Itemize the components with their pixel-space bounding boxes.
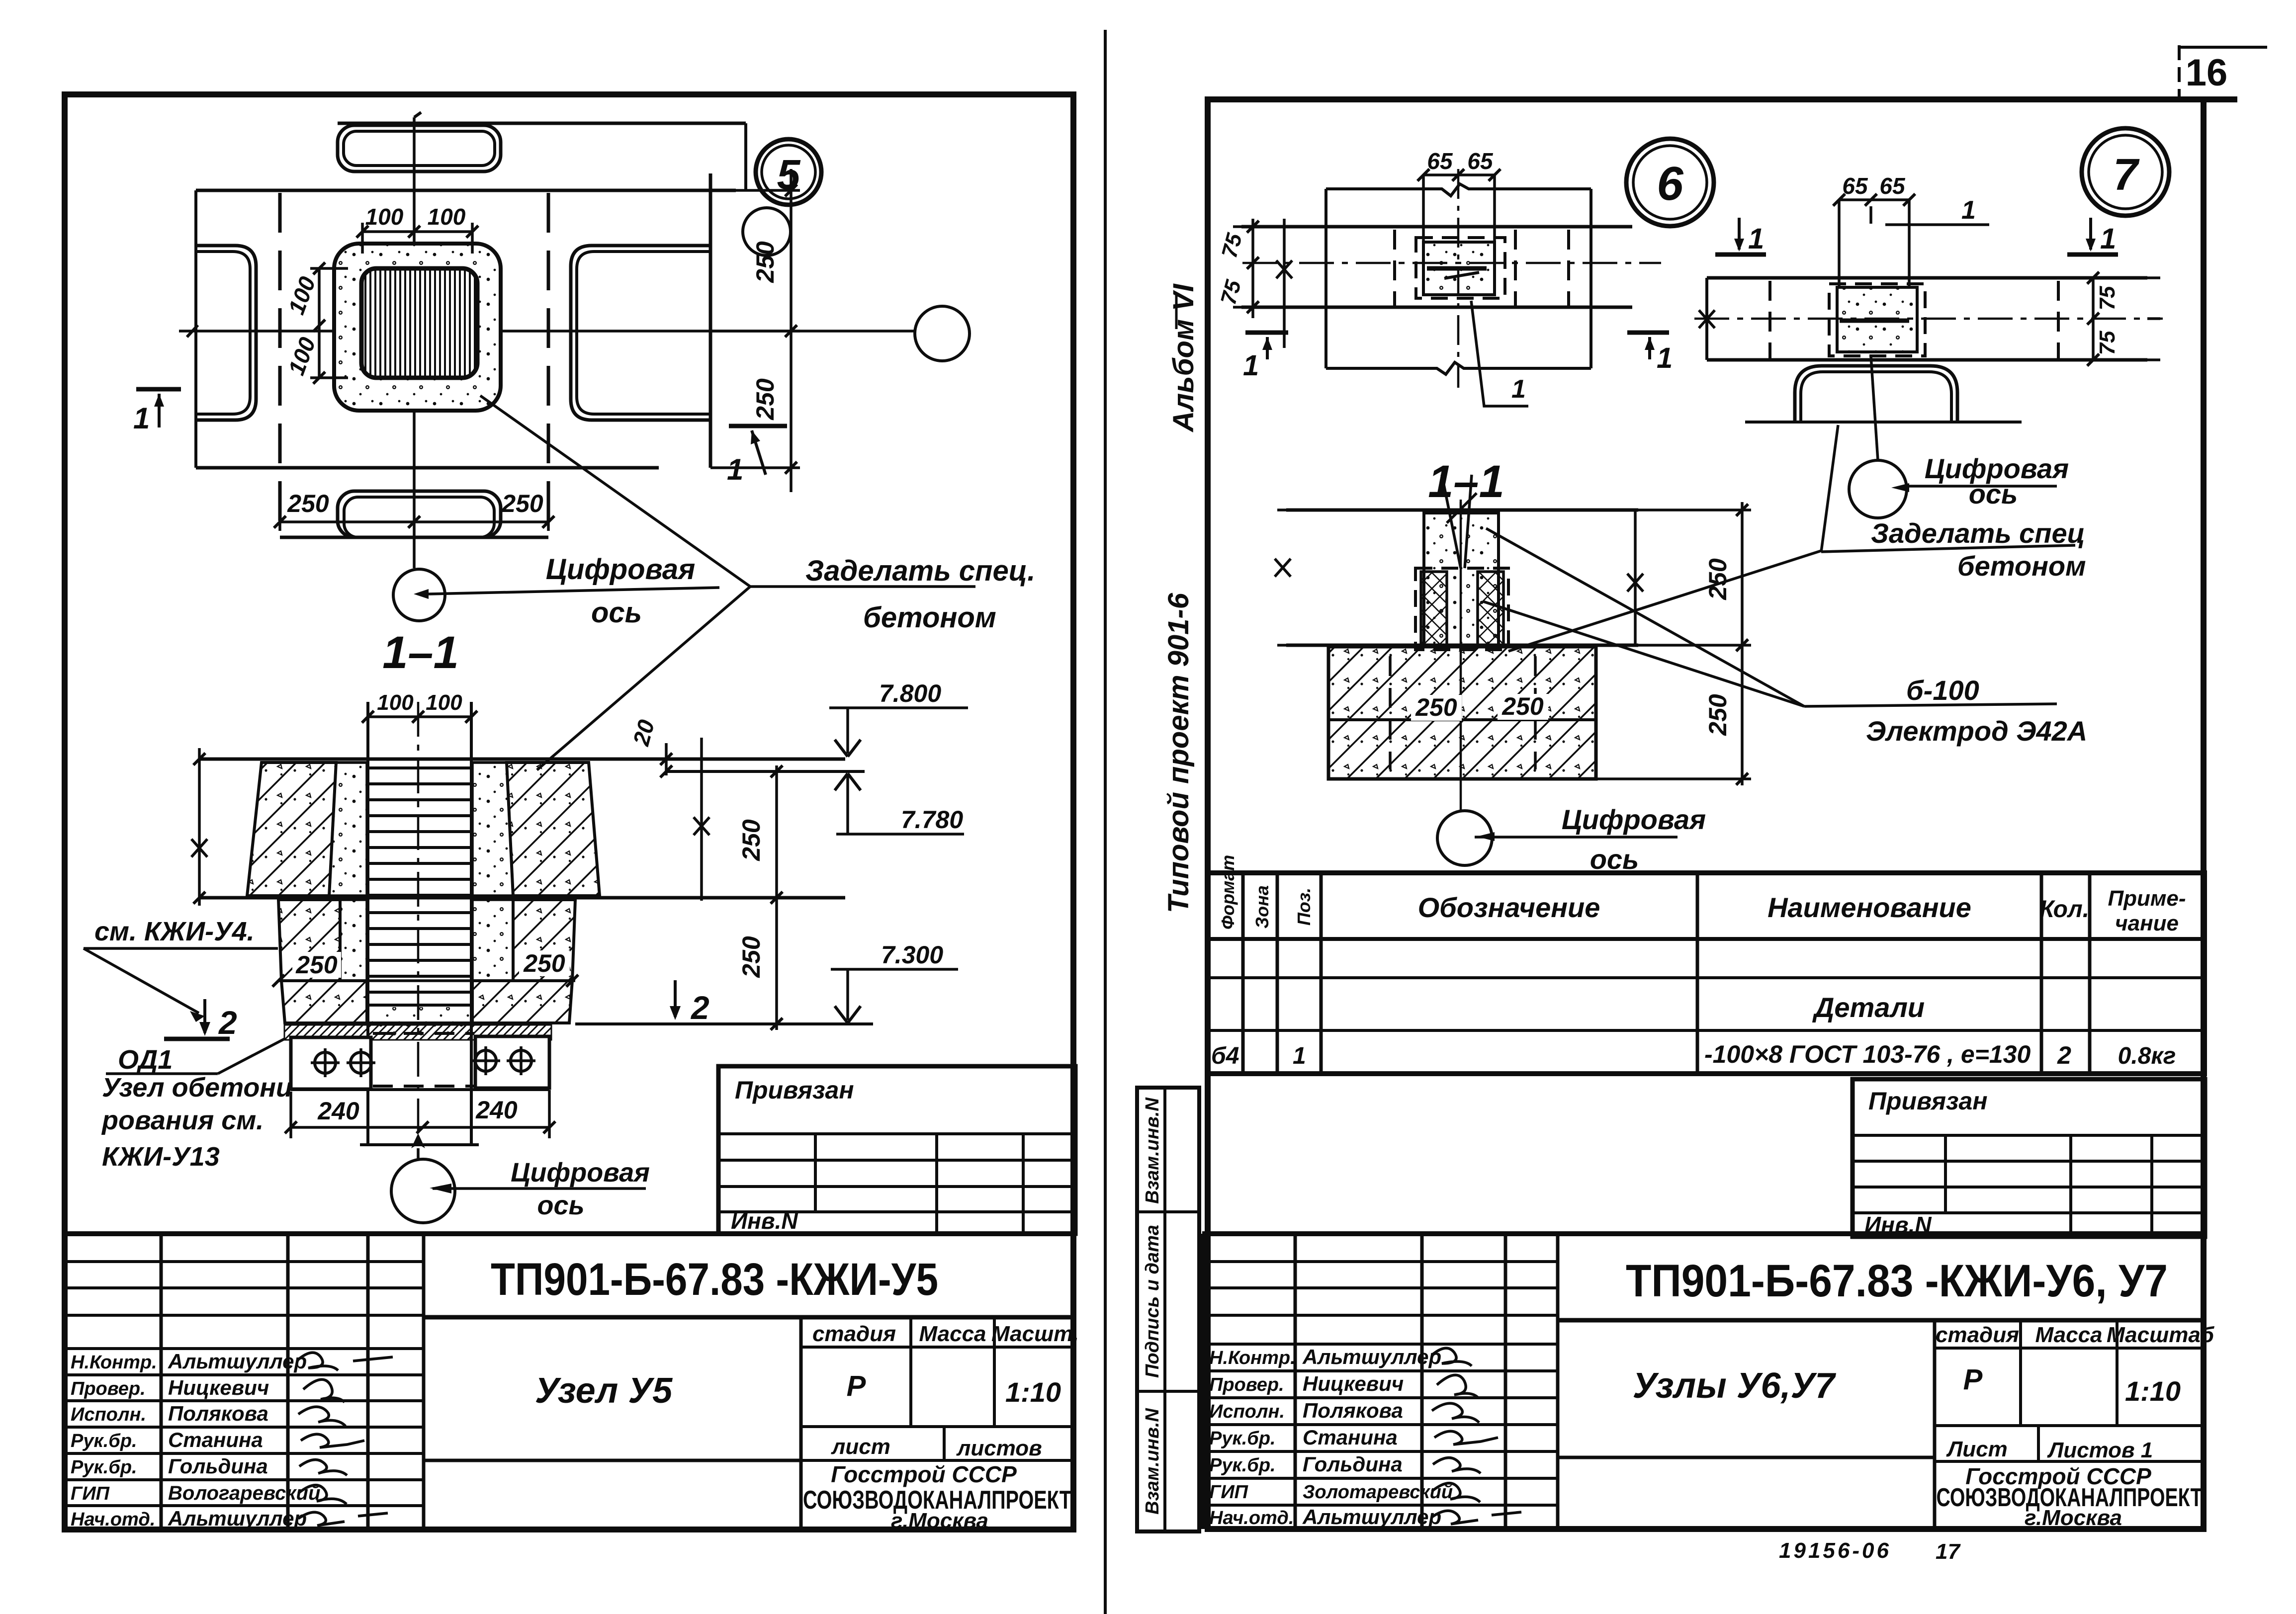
svg-text:20: 20 (628, 717, 660, 749)
svg-text:250: 250 (501, 490, 543, 517)
plan slab top edge (196, 189, 736, 192)
svg-text:1: 1 (133, 402, 150, 435)
right title org cell (1937, 1463, 2203, 1530)
svg-text:Масса: Масса (2035, 1323, 2102, 1347)
svg-text:Н.Контр.: Н.Контр. (71, 1352, 157, 1373)
plan bottom slab opening staple (338, 491, 501, 537)
label ОД1 (106, 1039, 284, 1075)
d6 slab top edge (1241, 225, 1632, 229)
d6 section mark 1 right (1627, 333, 1673, 374)
svg-text:ось: ось (591, 596, 642, 629)
svg-text:рования см.: рования см. (101, 1105, 264, 1135)
section column left edge (366, 702, 369, 1145)
svg-text:65: 65 (1842, 173, 1868, 199)
section dashed embed outline (373, 1033, 474, 1086)
section axis leader (433, 1187, 646, 1190)
svg-text:Подпись и дата: Подпись и дата (1142, 1225, 1163, 1378)
rs leaders to electrode label (1483, 528, 1804, 706)
plan dim 250 250 bottom (274, 490, 554, 531)
plan dim 250 250 right (710, 169, 800, 492)
section dim label 250 left inline (292, 951, 341, 979)
elevation mark 7.780 (835, 773, 964, 834)
svg-text:250: 250 (295, 951, 338, 979)
svg-text:75: 75 (1217, 231, 1247, 260)
section line under plates (291, 1088, 549, 1091)
section left extension line (191, 748, 207, 906)
plan top slab opening staple (338, 125, 501, 171)
svg-text:ОД1: ОД1 (118, 1045, 173, 1075)
left title org cell (803, 1461, 1071, 1533)
section label Цифровая ось (511, 1158, 650, 1220)
svg-text:100: 100 (377, 690, 414, 715)
svg-text:Лист: Лист (1946, 1437, 2008, 1461)
d7 left edge ticks (1699, 278, 1715, 360)
section column right edge (470, 702, 473, 1145)
d7 insert edges up (1839, 200, 1909, 287)
section dim 240 240 (285, 1090, 555, 1138)
svg-text:Ницкевич: Ницкевич (1303, 1372, 1404, 1395)
svg-text:Провер.: Провер. (71, 1378, 146, 1399)
parts table frame (1208, 873, 2205, 1074)
section middle right hatched block (513, 900, 575, 981)
section column bottom break (360, 1143, 479, 1146)
section right extension with break (694, 738, 709, 901)
svg-text:ТП901-Б-67.83 -КЖИ-У6, У7: ТП901-Б-67.83 -КЖИ-У6, У7 (1626, 1256, 2168, 1306)
rs label electrode (1804, 675, 2087, 747)
d6 insert dashed outline (1416, 238, 1505, 298)
svg-text:ось: ось (1969, 478, 2018, 510)
right title stage columns (1935, 1320, 2215, 1529)
svg-text:Узел У5: Узел У5 (535, 1371, 673, 1411)
side strip label 3 (1142, 1408, 1163, 1515)
left title designation cell (424, 1254, 1073, 1317)
svg-text:65: 65 (1467, 148, 1494, 174)
d7 insert body (1837, 287, 1917, 352)
svg-text:250: 250 (1501, 692, 1544, 720)
svg-text:2: 2 (2057, 1041, 2071, 1069)
rs grout collar dashed (1415, 568, 1508, 650)
d6 dim 65 65 (1417, 148, 1501, 181)
right page border (1208, 99, 2237, 1529)
section upper slab right hatched block (507, 763, 600, 896)
right title signatures (1432, 1348, 1521, 1524)
svg-text:7.800: 7.800 (879, 680, 941, 707)
d6 insert side edges (1423, 175, 1495, 242)
d7 axis circle (1849, 460, 1909, 518)
d7 centerline (1694, 318, 2163, 320)
d7 dim 65 65 (1833, 173, 1915, 206)
d6 axis vertical (1457, 169, 1460, 388)
svg-text:Рук.бр.: Рук.бр. (71, 1457, 137, 1478)
svg-text:Заделать спец.: Заделать спец. (805, 555, 1035, 587)
parts table row Детали (1812, 992, 1925, 1023)
parts table data row (1211, 1040, 2176, 1069)
plan panel joint dashed right (547, 193, 550, 536)
section mark 2 right (649, 980, 711, 1026)
plan upper panel edge line (338, 123, 746, 190)
rs slab bottom line (1286, 644, 1638, 647)
svg-text:Вологаревский: Вологаревский (168, 1482, 320, 1504)
svg-text:250: 250 (1415, 693, 1457, 721)
d6 dim 75 75 left (1216, 219, 1259, 318)
svg-text:Исполн.: Исполн. (1209, 1401, 1285, 1422)
section middle left grout block (340, 900, 367, 981)
d7 dashed joint left (1768, 281, 1771, 360)
svg-text:Альтшуллер: Альтшуллер (168, 1507, 307, 1530)
elevation mark 7.800 (829, 680, 968, 757)
section middle right grout block (472, 900, 513, 981)
section dim label 250 right inline (519, 949, 570, 977)
svg-text:Кол.: Кол. (2039, 896, 2089, 923)
svg-text:250: 250 (751, 378, 779, 421)
svg-text:листов: листов (956, 1436, 1042, 1460)
right title designation cell (1558, 1256, 2204, 1320)
rs foundation dim labels 250 250 (1411, 692, 1548, 721)
svg-text:Гольдина: Гольдина (1303, 1452, 1403, 1476)
svg-text:Альбом VI: Альбом VI (1167, 283, 1200, 432)
svg-text:Р: Р (847, 1370, 866, 1402)
svg-text:250: 250 (1704, 694, 1732, 736)
plan dim 100 100 left (283, 262, 348, 384)
section bottom axis circle (391, 1159, 455, 1223)
side strip label 2 (1142, 1225, 1163, 1378)
d6 panel outline (1326, 184, 1591, 374)
svg-text:5: 5 (777, 151, 801, 198)
section anchor plate left (291, 1037, 371, 1089)
svg-text:1: 1 (1293, 1043, 1306, 1069)
svg-text:ГИП: ГИП (1209, 1482, 1248, 1503)
svg-text:Листов 1: Листов 1 (2047, 1438, 2153, 1462)
section cast zone below column (370, 1007, 469, 1040)
d7 axis leader from insert (1871, 356, 1878, 460)
svg-text:65: 65 (1879, 173, 1906, 199)
plan small axis circle below bubble (743, 208, 791, 255)
left title stage columns (801, 1317, 1079, 1529)
section column rungs (368, 768, 471, 1005)
plan panel joint dashed left (278, 193, 282, 536)
section right lower slab line (575, 1022, 873, 1025)
section lower left hatched block (281, 981, 367, 1023)
svg-text:Полякова: Полякова (168, 1402, 268, 1425)
svg-text:1: 1 (1243, 349, 1259, 382)
left page border (65, 94, 1073, 1529)
svg-text:65: 65 (1427, 148, 1453, 174)
parts table headers (1218, 855, 2186, 935)
svg-text:75: 75 (2095, 331, 2119, 355)
d7 bottom panel staple (1795, 366, 1957, 422)
d6 joint dashed near insert left (1393, 230, 1396, 306)
svg-text:1–1: 1–1 (382, 627, 459, 678)
section anchor bolts left (311, 1048, 375, 1077)
project label rotated (1162, 593, 1195, 913)
d7 insert dashed outline (1829, 284, 1925, 356)
section anchor plate right (475, 1036, 549, 1088)
svg-text:19156-06: 19156-06 (1779, 1538, 1891, 1563)
svg-text:250: 250 (737, 819, 765, 861)
svg-text:Приме-: Приме- (2108, 886, 2186, 911)
plan right slab opening (571, 246, 710, 420)
plan column ribbed core (361, 268, 477, 378)
svg-text:б-100: б-100 (1906, 675, 1979, 706)
d7 slab top edge (1707, 276, 2147, 280)
plan left slab opening (196, 246, 256, 420)
d6 centerline (1242, 262, 1661, 264)
footer document number 19156-06 (1779, 1538, 1891, 1563)
plan grout leader to label (480, 396, 975, 587)
plan section mark 1 right (727, 426, 787, 486)
svg-text:1: 1 (1511, 375, 1526, 404)
section middle left hatched block (278, 900, 340, 981)
svg-text:Нач.отд.: Нач.отд. (1209, 1508, 1294, 1529)
svg-text:Альтшуллер: Альтшуллер (1302, 1505, 1441, 1529)
d7 label Заделать спец бетоном (1821, 517, 2086, 582)
svg-text:250: 250 (737, 936, 765, 978)
plan left cut edge (194, 190, 197, 468)
rs dim 250 250 right (1596, 502, 1751, 785)
svg-text:250: 250 (1704, 558, 1732, 600)
svg-text:100: 100 (365, 204, 404, 230)
d7 leader from insert to label (1821, 425, 1838, 552)
plan bottom axis circle (393, 569, 445, 621)
svg-text:Формат: Формат (1218, 855, 1238, 930)
svg-text:стадия: стадия (1936, 1323, 2019, 1347)
album label rotated (1167, 283, 1200, 432)
section title 1-1 (382, 627, 459, 678)
svg-text:7: 7 (2113, 150, 2140, 200)
svg-text:Детали: Детали (1812, 992, 1925, 1023)
svg-text:Рук.бр.: Рук.бр. (71, 1431, 137, 1451)
svg-text:Золотаревский: Золотаревский (1303, 1482, 1453, 1503)
svg-text:Взам.инв.N: Взам.инв.N (1142, 1408, 1163, 1515)
leader from label to section below (537, 587, 750, 770)
left title name entries (168, 1350, 320, 1530)
svg-text:100: 100 (428, 204, 466, 230)
svg-text:ось: ось (1590, 844, 1639, 875)
svg-text:6: 6 (1657, 157, 1683, 210)
left privyazan box (718, 1066, 1075, 1234)
rs foundation block (1328, 647, 1596, 779)
svg-text:лист: лист (831, 1435, 890, 1459)
svg-text:ТП901-Б-67.83 -КЖИ-У5: ТП901-Б-67.83 -КЖИ-У5 (491, 1254, 938, 1305)
d6 detail bubble 6 (1626, 139, 1714, 226)
svg-text:Масштаб: Масштаб (2107, 1323, 2215, 1347)
svg-text:Узлы У6,У7: Узлы У6,У7 (1633, 1366, 1837, 1406)
right title name entries (1302, 1345, 1453, 1529)
svg-text:17: 17 (1936, 1539, 1961, 1564)
svg-text:1–1: 1–1 (1428, 456, 1504, 507)
footer page 17 (1936, 1539, 1961, 1564)
svg-text:250: 250 (751, 241, 779, 283)
svg-text:100: 100 (426, 690, 462, 715)
svg-text:Заделать спец: Заделать спец (1871, 517, 2085, 549)
svg-text:75: 75 (2095, 286, 2119, 310)
svg-text:Рук.бр.: Рук.бр. (1209, 1455, 1276, 1476)
svg-text:Станина: Станина (168, 1428, 263, 1451)
rs slab top line (1286, 509, 1638, 512)
section upper slab top line (198, 758, 845, 761)
d7 label Цифровая ось (1906, 453, 2069, 510)
section dim 20 right (628, 717, 672, 777)
svg-text:2: 2 (690, 989, 709, 1026)
svg-text:Электрод Э42А: Электрод Э42А (1866, 715, 2087, 747)
svg-text:240: 240 (475, 1096, 518, 1124)
svg-text:7.300: 7.300 (881, 941, 943, 969)
section dim 250 upper right (737, 765, 783, 1030)
svg-text:Госстрой СССР: Госстрой СССР (831, 1461, 1017, 1487)
svg-text:7.780: 7.780 (901, 806, 963, 834)
svg-text:100: 100 (283, 334, 320, 378)
plan adjacent panel edge line (709, 173, 712, 468)
d7 section mark 1 left (1715, 218, 1766, 255)
svg-text:Поз.: Поз. (1294, 888, 1314, 926)
d6 section mark 1 left (1243, 333, 1288, 382)
d7 section mark 1 right (2067, 218, 2118, 255)
svg-text:0.8кг: 0.8кг (2118, 1043, 2176, 1069)
rs slab left ticks (1275, 510, 1291, 645)
svg-text:Масса: Масса (919, 1322, 986, 1346)
svg-text:Инв.N: Инв.N (731, 1208, 798, 1234)
svg-text:Альтшуллер: Альтшуллер (168, 1350, 307, 1373)
svg-text:-100×8 ГОСТ 103-76 , е=130: -100×8 ГОСТ 103-76 , е=130 (1704, 1040, 2031, 1068)
svg-text:Взам.инв.N: Взам.инв.N (1142, 1097, 1163, 1204)
svg-text:Привязан: Привязан (735, 1076, 854, 1104)
plan axis leader line (429, 588, 719, 594)
rs axis circle (1437, 811, 1495, 865)
svg-text:бетоном: бетоном (1957, 550, 2086, 582)
plan column grout collar (334, 244, 501, 411)
svg-text:75: 75 (1216, 277, 1246, 307)
rs top leader lines to plan (1442, 475, 1472, 568)
d6 insert body (1423, 242, 1495, 295)
svg-text:250: 250 (523, 949, 565, 977)
d7 leader 1 (1871, 196, 1989, 225)
section upper slab right grout block (472, 763, 513, 896)
svg-text:Провер.: Провер. (1209, 1374, 1284, 1395)
svg-text:Альтшуллер: Альтшуллер (1302, 1345, 1441, 1368)
svg-text:Нач.отд.: Нач.отд. (71, 1509, 155, 1530)
svg-text:240: 240 (317, 1097, 359, 1125)
d7 slab bottom edge (1707, 358, 2147, 362)
svg-text:Рук.бр.: Рук.бр. (1209, 1428, 1276, 1449)
sheet number box 16 (2179, 45, 2267, 98)
plan horizontal centerline (179, 325, 914, 337)
section lower right hatched block (472, 981, 572, 1023)
svg-text:2: 2 (218, 1004, 237, 1041)
svg-text:Цифровая: Цифровая (1562, 804, 1706, 835)
svg-text:см. КЖИ-У4.: см. КЖИ-У4. (94, 917, 255, 946)
plan vertical centerline (414, 112, 421, 568)
plan label Цифровая ось (546, 553, 696, 629)
svg-text:Цифровая: Цифровая (546, 553, 696, 586)
svg-text:1:10: 1:10 (1005, 1376, 1061, 1408)
right side strip (1137, 1088, 1199, 1531)
svg-text:ось: ось (537, 1190, 584, 1220)
right title row labels (1209, 1348, 1296, 1529)
svg-text:Н.Контр.: Н.Контр. (1209, 1348, 1296, 1368)
section mark 2 left (164, 999, 237, 1041)
svg-text:Р: Р (1963, 1363, 1983, 1396)
svg-text:б4: б4 (1211, 1043, 1239, 1069)
svg-text:ГИП: ГИП (71, 1483, 110, 1504)
elevation mark 7.300 (831, 941, 958, 1023)
section anchor bolts right (471, 1046, 535, 1075)
svg-text:Зона: Зона (1252, 885, 1272, 929)
section dim 100 100 (362, 690, 477, 723)
plan axis circle right (915, 306, 970, 361)
svg-text:1: 1 (1748, 223, 1764, 255)
rs column through slab (1424, 513, 1499, 645)
section column axis (411, 702, 425, 1158)
d6 leader 1 (1471, 301, 1528, 406)
svg-text:Масшт.: Масшт. (991, 1322, 1079, 1346)
svg-text:бетоном: бетоном (863, 601, 996, 634)
plan section mark 1 left (133, 389, 181, 435)
svg-text:Гольдина: Гольдина (168, 1454, 268, 1478)
svg-text:16: 16 (2186, 52, 2228, 94)
d7 dim 75 75 right (2087, 272, 2160, 366)
svg-text:Привязан: Привязан (1868, 1087, 1988, 1115)
svg-text:стадия: стадия (812, 1322, 896, 1346)
d6 slab bottom edge (1241, 306, 1632, 309)
svg-text:г.Москва: г.Москва (2025, 1506, 2122, 1530)
svg-text:1: 1 (1657, 342, 1673, 374)
label см КЖИ-У4 (84, 917, 278, 1022)
rs axis vertical (1460, 502, 1462, 810)
side strip label 1 (1142, 1097, 1163, 1204)
left title signatures (298, 1353, 393, 1526)
svg-text:250: 250 (287, 490, 329, 517)
svg-text:Наименование: Наименование (1767, 892, 1971, 923)
svg-text:100: 100 (283, 273, 320, 318)
svg-text:КЖИ-У13: КЖИ-У13 (102, 1142, 220, 1172)
svg-text:Типовой проект 901-6: Типовой проект 901-6 (1162, 593, 1195, 913)
svg-text:1:10: 1:10 (2125, 1375, 2181, 1407)
d6 joint dashed right (1567, 230, 1570, 307)
section middle tick line (272, 975, 578, 987)
svg-text:Цифровая: Цифровая (511, 1158, 650, 1188)
svg-text:1: 1 (727, 453, 743, 486)
section upper slab left hatched block (247, 763, 336, 896)
d6 extension with break (1276, 219, 1292, 348)
svg-text:г.Москва: г.Москва (891, 1509, 988, 1533)
left title block frame (65, 1234, 1073, 1529)
svg-text:Ницкевич: Ницкевич (168, 1376, 269, 1399)
rs label Цифровая ось (1475, 804, 1706, 875)
label Узел обетонирования (101, 1073, 301, 1172)
left title row labels (71, 1352, 157, 1530)
plan lower panel edge line (280, 536, 548, 539)
d7 dashed joint right (2057, 281, 2060, 360)
svg-text:Узел обетони-: Узел обетони- (102, 1073, 301, 1103)
rs collar hatch strips (1421, 572, 1503, 646)
section upper slab bottom line (198, 896, 845, 900)
svg-text:Обозначение: Обозначение (1418, 892, 1600, 923)
left title Узел У5 cell (424, 1371, 801, 1460)
d7 detail bubble 7 (2082, 128, 2169, 216)
label Заделать спец бетоном (805, 555, 1035, 634)
section upper slab left grout block (329, 763, 367, 896)
svg-text:Станина: Станина (1303, 1426, 1398, 1449)
plan dim 100 100 top (356, 204, 478, 254)
section grout gap line (666, 770, 865, 773)
section grout seam strip (284, 1025, 551, 1040)
svg-text:чание: чание (2115, 911, 2179, 935)
section bottom line of pocket (285, 1021, 569, 1024)
rs extension break right (1627, 510, 1643, 645)
d6 joint dashed near insert right (1514, 230, 1517, 306)
svg-text:Полякова: Полякова (1303, 1399, 1403, 1422)
right title block frame (1202, 1234, 2204, 1529)
